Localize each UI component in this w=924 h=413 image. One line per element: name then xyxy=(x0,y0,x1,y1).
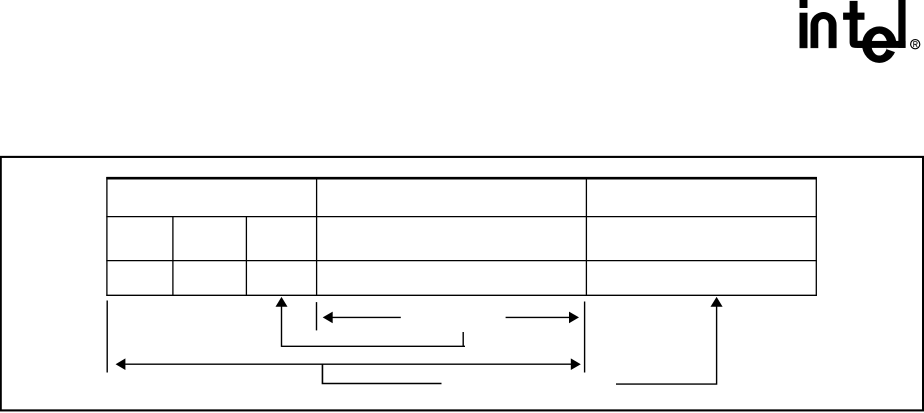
intel logo letter t crossbar xyxy=(843,13,864,20)
intel logo registered mark R xyxy=(914,42,918,47)
table row divider 1 xyxy=(106,216,817,218)
table left border xyxy=(106,177,108,296)
bracket line 1 under up arrow 1 xyxy=(282,332,466,347)
intel logo registered mark circle xyxy=(911,40,920,49)
middle dimension left arrow line xyxy=(332,316,400,318)
intel logo baseline bar of e xyxy=(857,41,905,47)
table right border xyxy=(815,177,817,296)
up arrow 2 head xyxy=(711,297,723,307)
table top border xyxy=(106,177,817,180)
up arrow 1 shaft xyxy=(281,306,283,347)
intel logo letter l stem xyxy=(899,0,906,48)
middle dimension right arrowhead xyxy=(569,312,579,324)
table row divider 2 xyxy=(106,260,817,262)
intel logo letter n xyxy=(811,12,837,48)
intel logo letter t stem and foot xyxy=(850,1,866,47)
big dimension left arrowhead xyxy=(116,358,126,370)
intel logo xyxy=(800,0,920,63)
intel logo letter i stem xyxy=(800,13,807,48)
up arrow 1 head xyxy=(276,297,288,307)
table column divider rows 2-3 at x=173 xyxy=(172,216,174,296)
middle dimension right arrow line xyxy=(506,316,570,318)
table column divider rows 2-3 at x=246 xyxy=(245,216,247,296)
up arrow 2 shaft and bracket xyxy=(616,306,717,384)
outer frame xyxy=(1,157,923,411)
intel logo letter e ring xyxy=(862,27,896,63)
big dimension right arrowhead xyxy=(571,358,581,370)
table full-height column divider at x=586 xyxy=(585,177,587,296)
middle dimension left arrowhead xyxy=(323,312,333,324)
intel logo letter e lower-right notch xyxy=(886,45,897,52)
dimension tick at x=317 xyxy=(316,302,318,330)
table bottom border xyxy=(106,294,817,296)
big dimension arrow line xyxy=(125,363,571,365)
bracket line 2 under big arrow xyxy=(322,364,441,384)
dimension tick at x=586 xyxy=(584,302,586,373)
big dimension tick at x=107 xyxy=(106,301,108,373)
intel logo letter i dot xyxy=(800,0,807,8)
table full-height column divider at x=317 xyxy=(316,177,318,296)
